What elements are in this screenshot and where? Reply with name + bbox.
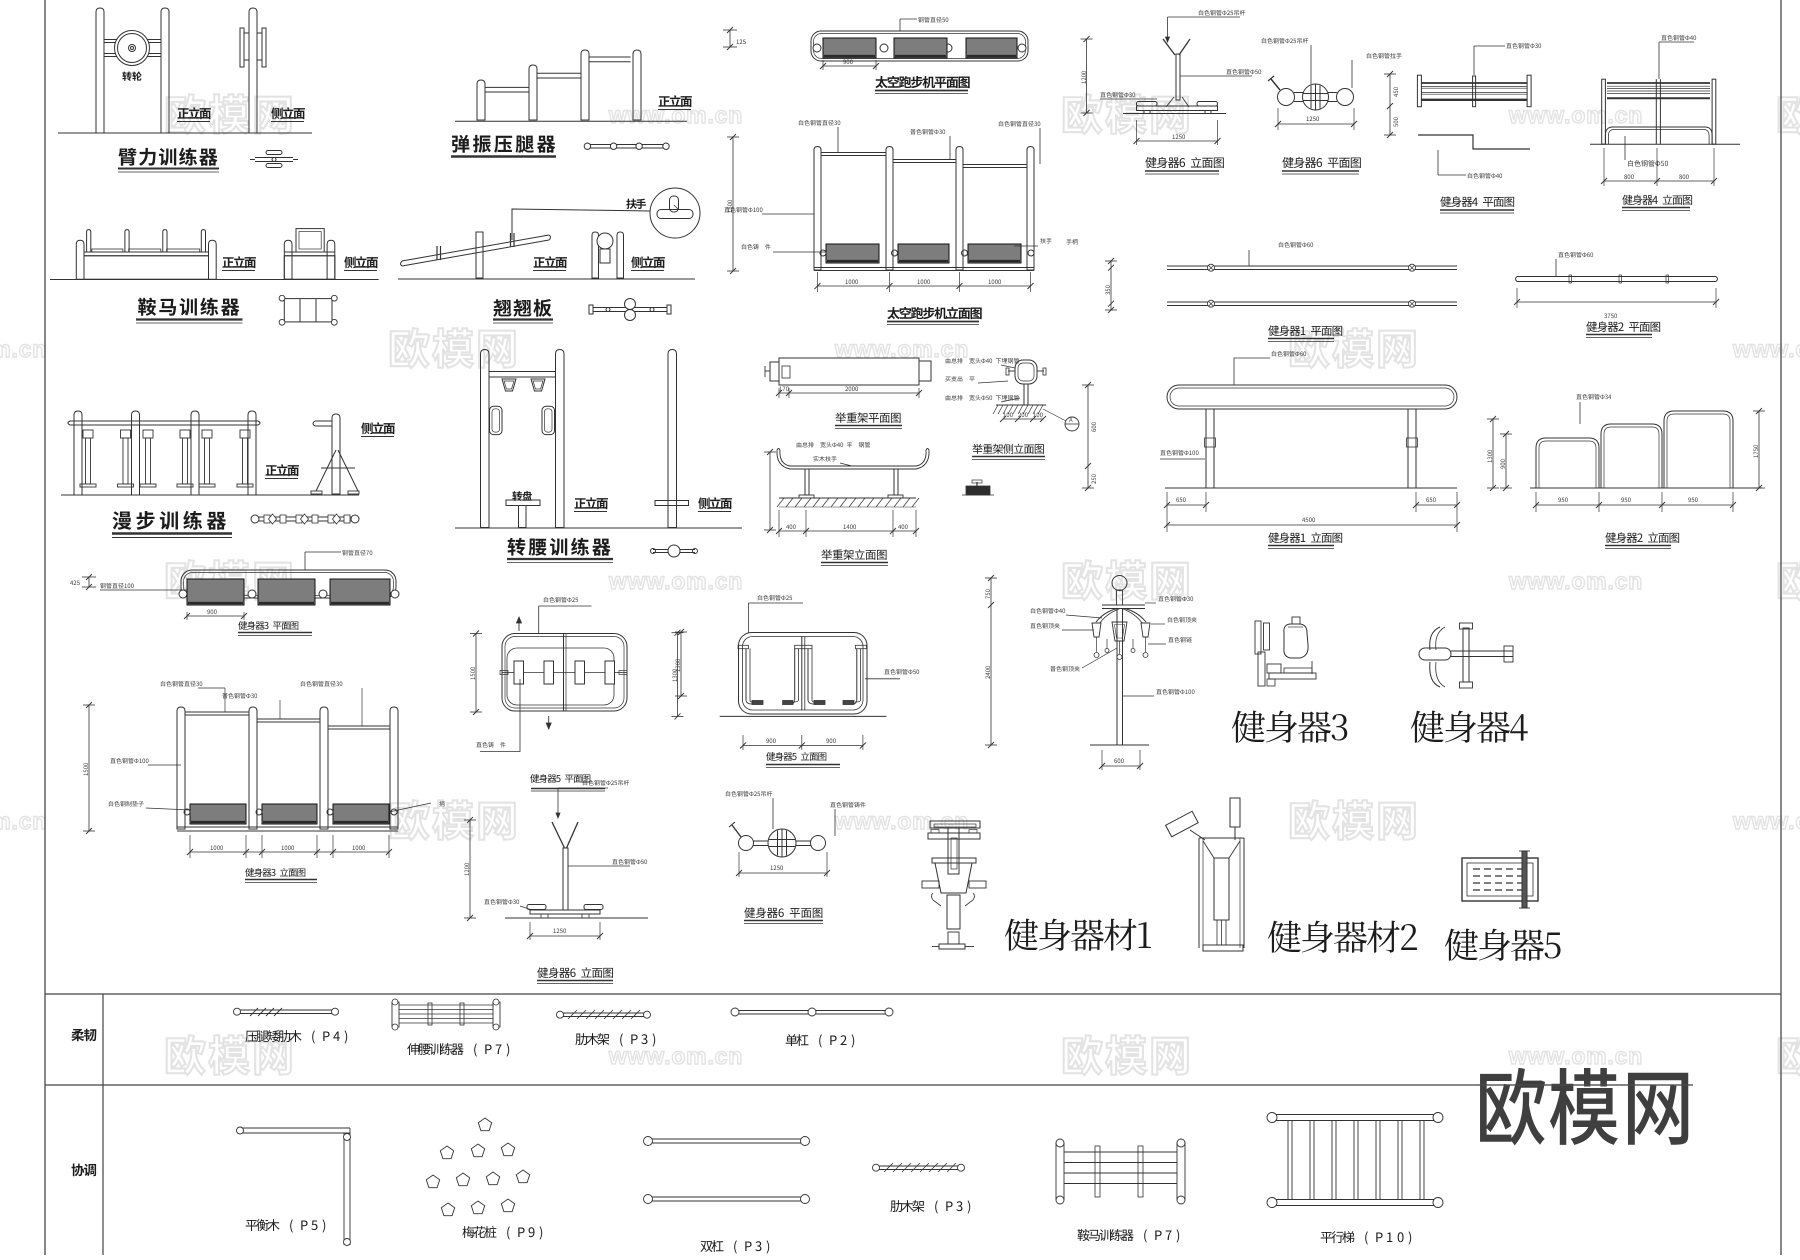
转盘 label <box>512 491 532 501</box>
健身器6平面图2 right circle <box>811 836 826 851</box>
健身器6立面图2 title <box>537 967 613 978</box>
健身器4立面图 bench <box>1602 79 1606 144</box>
臂力训练器 side view <box>249 8 257 133</box>
太空跑步机立面图 leader 1 <box>799 120 840 126</box>
太极揉推器 left dim pole <box>990 578 992 745</box>
健身器3立面图 pads <box>190 804 246 824</box>
健身器3平面图 tube frame <box>181 570 396 598</box>
健身器2平面图 title <box>1586 321 1660 332</box>
太空跑步机立面图 left dim pole <box>732 137 734 271</box>
太空跑步机立面图 right leader <box>1040 238 1051 244</box>
太极揉推器 leaders right <box>1158 596 1193 602</box>
正立面 label (臂力) <box>178 107 211 119</box>
太空跑步机平面图 bottom dim <box>822 60 824 70</box>
太空跑步机立面图 title <box>887 307 981 319</box>
健身器3平面图 title <box>238 621 298 630</box>
table label column line <box>102 994 104 1255</box>
翘翘板 handles <box>436 246 438 260</box>
鞍马训练器 ground <box>50 279 379 281</box>
鞍马训练器 icon <box>1056 1143 1064 1200</box>
健身器1平面图 leader <box>1279 242 1313 248</box>
柔韧 row label <box>71 1029 96 1042</box>
弹振压腿器 plan icon <box>587 144 666 146</box>
健身器5立面图 foot pads <box>752 701 763 705</box>
肋木架 icon 1 <box>560 1012 647 1014</box>
太极揉推器 post <box>1117 609 1123 746</box>
健身器6平面图 center wheel <box>1303 84 1329 110</box>
太空跑步机平面图 left dim <box>723 29 737 31</box>
翘翘板 ground <box>398 278 695 280</box>
健身器5立面图 center divider <box>801 637 803 711</box>
健身器6立面图 top leader <box>1167 17 1169 42</box>
健身器6平面图 bar <box>1294 92 1337 94</box>
健身器3立面图 right leader <box>439 801 445 807</box>
健身器3立面图 pad pins <box>184 809 190 815</box>
健身器5平面图 right dim <box>677 633 679 717</box>
健身器5立面图 top leader <box>748 603 750 633</box>
转腰训练器 crossbar <box>489 371 556 373</box>
鞍马训练器 top stubs <box>87 230 91 252</box>
举重架平面图 dims <box>778 388 780 398</box>
肋木架 icon 2 <box>876 1165 961 1167</box>
翘翘板 side view <box>592 232 599 278</box>
侧立面 label (鞍马) <box>344 256 378 268</box>
健身器4平面图 title <box>1440 196 1514 207</box>
扶手 leader <box>512 209 650 240</box>
健身器6平面图 dim <box>1277 108 1279 130</box>
健身器2立面图 title <box>1605 532 1679 543</box>
健身器6立面图 mid leader <box>1180 75 1252 77</box>
平行梯 label <box>1321 1231 1412 1244</box>
健身器6平面图 right circle <box>1337 89 1354 106</box>
健身器3 label <box>1232 711 1347 743</box>
太空跑步机立面图 leader 3 <box>999 121 1040 127</box>
健身器5立面图 right leader <box>865 678 900 680</box>
漫步训练器 ground <box>61 494 359 496</box>
健身器1立面图 title <box>1268 532 1342 543</box>
健身器2立面图 dims <box>1535 492 1537 512</box>
转腰训练器 title <box>508 538 611 556</box>
转腰训练器 side handles <box>490 406 503 434</box>
肋木架 label 1 <box>575 1033 655 1046</box>
臂力训练器 front post right <box>161 8 169 133</box>
太空跑步机平面图 leader <box>899 19 901 31</box>
太极揉推器 hangers <box>1092 623 1101 637</box>
健身器4立面图 seat tube <box>1605 127 1712 144</box>
健身器5立面图 bottom dims <box>742 735 744 750</box>
健身器4 label <box>1411 711 1528 743</box>
侧立面 label (翘翘板) <box>631 256 665 268</box>
健身器6平面图2 leaders <box>726 791 772 797</box>
肋木架 label 2 <box>890 1200 970 1213</box>
太极揉推器 leaders left <box>1031 608 1065 614</box>
正立面 label (漫步) <box>266 464 299 476</box>
健身器1平面图 bar 1 <box>1167 265 1457 267</box>
健身器6立面图 left dim pole <box>1086 39 1088 113</box>
伸腰训练器 icon <box>392 1002 399 1027</box>
健身器1平面图 title <box>1268 325 1342 336</box>
太空跑步机平面图 tube frame <box>811 31 1028 61</box>
举重架立面图 legs <box>805 469 809 495</box>
健身器5 label <box>1445 929 1561 961</box>
健身器6平面图 left circle <box>1278 89 1295 106</box>
漫步训练器 top rail <box>70 420 258 422</box>
鞍马训练器 seat pads <box>92 249 123 252</box>
健身器4平面图 leader <box>1473 46 1475 75</box>
健身器1立面图 dims <box>1166 492 1168 532</box>
举重架侧立面图 bottom dim <box>1003 418 1043 420</box>
压腿矮肋木 label <box>245 1030 347 1043</box>
svg-text:www.om.cn: www.om.cn <box>608 1043 743 1069</box>
健身器5立面图 inner tubes <box>745 649 747 701</box>
健身器2平面图 leader <box>1555 259 1557 276</box>
弹振压腿器 title <box>452 135 555 153</box>
健身器4立面图 inner leader <box>1624 136 1626 160</box>
svg-text:www.om.cn: www.om.cn <box>1732 336 1800 362</box>
健身器5立面图 tube caps <box>738 645 749 648</box>
健身器3平面图 pad dim <box>186 612 188 620</box>
健身器5平面图 arrows <box>518 617 520 631</box>
弹振压腿器 posts <box>477 80 485 120</box>
健身器2立面图 left dim poles <box>1492 419 1494 488</box>
举重架立面图 left dim pole <box>769 452 771 530</box>
健身器6立面图2 left dim <box>469 820 471 918</box>
太空跑步机立面图 left leader mid <box>724 207 762 213</box>
健身器5平面图 left dim <box>475 634 477 713</box>
双杠 icon <box>648 1138 805 1140</box>
举重架侧立面图 leaders <box>946 358 1019 364</box>
健身器4平面图 Z leader <box>1437 150 1439 175</box>
健身器6立面图 ground <box>1123 113 1226 115</box>
健身器6立面图 base <box>1137 106 1218 111</box>
健身器1立面图 top leader <box>1234 358 1270 385</box>
鞍马训练器 label <box>1078 1229 1180 1243</box>
弹振压腿器 ground <box>455 120 687 122</box>
扶手 label <box>626 199 646 209</box>
单杠 icon <box>735 1010 889 1012</box>
梅花桩 label <box>462 1226 542 1240</box>
健身器3平面图 left dim <box>82 576 96 578</box>
正立面 label (翘翘板) <box>534 256 567 268</box>
健身器4立面图 ground <box>1590 143 1740 145</box>
健身器4立面图 title <box>1622 195 1692 205</box>
page left border <box>44 0 46 1255</box>
侧立面 label (转腰) <box>698 497 732 509</box>
太极揉推器 cap plate <box>1102 604 1145 606</box>
举重架立面图 bench <box>790 465 916 467</box>
漫步训练器 posts <box>74 411 82 495</box>
太空跑步机平面图 joint circles <box>813 44 821 52</box>
太空跑步机立面图 posts <box>814 147 821 271</box>
鞍马训练器 bench <box>84 251 209 253</box>
平衡木 label <box>246 1219 326 1232</box>
健身器6立面图 title <box>1145 157 1223 168</box>
臂力训练器 ground line <box>58 132 312 134</box>
鞍马训练器 front posts <box>76 240 84 279</box>
健身器6平面图2 title <box>744 907 822 918</box>
健身器5平面图 pedals <box>514 661 524 684</box>
svg-text:www.om.cn: www.om.cn <box>1508 568 1643 594</box>
正立面 label (弹振) <box>659 95 692 107</box>
臂力训练器 plan icon <box>255 157 293 159</box>
太极揉推器 ball top <box>1112 576 1127 591</box>
健身器3立面图 left dim pole <box>88 705 90 831</box>
太极揉推器 arms <box>1096 609 1117 623</box>
健身器2立面图 ground <box>1530 487 1762 489</box>
健身器2立面图 step frame 3 <box>1664 411 1733 488</box>
举重架立面图 right dim pole <box>1087 385 1089 488</box>
太空跑步机平面图 title <box>875 76 969 88</box>
健身器3 icon <box>1255 621 1261 654</box>
鞍马训练器 side view <box>284 240 292 279</box>
svg-text:www.om.cn: www.om.cn <box>0 808 47 834</box>
臂力训练器 wheel <box>115 31 150 66</box>
健身器6平面图 leader 2 <box>1367 53 1402 59</box>
太空跑步机立面图 left leader low <box>742 244 771 250</box>
正立面 label (转腰) <box>575 497 608 509</box>
翘翘板 center post <box>476 232 483 278</box>
健身器1立面图 left leader <box>1160 450 1198 456</box>
健身器5平面图 title <box>530 774 590 783</box>
翘翘板 plan icon <box>593 307 667 309</box>
梅花桩 icon <box>478 1118 491 1131</box>
健身器5 icon <box>1462 858 1538 901</box>
翘翘板 beam <box>402 235 549 266</box>
健身器2立面图 leader <box>1576 394 1611 400</box>
太空跑步机立面图 pad pins <box>820 250 826 256</box>
太空跑步机立面图 base <box>814 267 1034 269</box>
举重架平面图 body <box>779 358 919 385</box>
伸腰训练器 label <box>407 1043 509 1057</box>
太空跑步机立面图 bottom dims <box>817 272 819 292</box>
健身器6立面图 fork and stem <box>1163 39 1175 55</box>
健身器材2 machine <box>1166 811 1199 837</box>
太空跑步机立面图 pads <box>826 244 879 263</box>
svg-text:www.om.cn: www.om.cn <box>1508 1043 1643 1069</box>
table top border <box>45 993 1781 995</box>
svg-text:www.om.cn: www.om.cn <box>1508 102 1643 128</box>
健身器5立面图 title <box>766 752 826 761</box>
watermark tile layer <box>0 94 1800 1075</box>
健身器3立面图 rails <box>185 711 249 713</box>
臂力训练器 front post left <box>96 8 104 133</box>
page right border <box>1780 0 1782 1255</box>
双杠 label <box>700 1240 769 1253</box>
侧立面 label (臂力) <box>271 107 305 119</box>
太极揉推器 pull cords <box>1096 637 1098 652</box>
健身器3平面图 joint circles <box>179 590 187 598</box>
转腰训练器 hanging triangles <box>502 379 516 391</box>
健身器6平面图 title <box>1282 157 1360 168</box>
压腿矮肋木 icon <box>237 1009 335 1011</box>
健身器2立面图 right dim pole <box>1758 411 1760 488</box>
转腰训练器 side view <box>668 350 677 528</box>
健身器4平面图 bench top view <box>1417 75 1421 107</box>
健身器2立面图 step frame 2 <box>1601 424 1662 488</box>
协调 row label <box>72 1164 97 1177</box>
健身器1立面图 posts <box>1206 409 1214 488</box>
健身器5平面图 lower leader <box>480 679 520 752</box>
太极揉推器 bottom dim <box>1101 750 1103 770</box>
健身器6立面图2 top leader <box>557 788 559 818</box>
健身器2立面图 step frame 1 <box>1536 438 1599 488</box>
健身器3立面图 top leaders <box>161 681 202 687</box>
健身器6平面图2 bar <box>753 840 811 842</box>
平衡木 icon <box>237 1127 350 1129</box>
健身器6立面图 left leader <box>1100 92 1135 98</box>
漫步训练器 title <box>113 511 227 530</box>
鞍马训练器 title <box>138 298 239 316</box>
转腰训练器 plan icon <box>653 549 695 551</box>
举重架侧立面图 ground hatch <box>996 404 1046 406</box>
健身器5平面图 frame <box>502 634 627 712</box>
健身器1平面图 left dim pole <box>1110 261 1112 310</box>
健身器材2 label <box>1268 921 1417 953</box>
健身器1立面图 top rail <box>1167 385 1457 409</box>
扶手 detail circle <box>650 188 700 238</box>
健身器1平面图 手柄 label <box>1066 239 1077 245</box>
健身器6立面图2 mid leader <box>568 865 630 867</box>
太空跑步机立面图 top rails <box>821 152 886 154</box>
转腰训练器 posts <box>481 350 490 528</box>
臂力训练器 crossbars <box>104 39 161 41</box>
欧模网 logo bottom right <box>1480 1068 1688 1146</box>
健身器2平面图 dim <box>1516 288 1518 308</box>
举重架立面图 section icon <box>966 486 990 495</box>
健身器6立面图2 left leader <box>484 899 519 905</box>
臂力训练器 title <box>118 148 217 166</box>
table row divider over logo <box>1475 1084 1693 1086</box>
健身器1立面图 ground <box>1165 487 1457 489</box>
健身器3立面图 bottom dims <box>189 835 191 858</box>
健身器材1 label <box>1005 919 1151 951</box>
太空跑步机立面图 leader 2 <box>910 129 945 135</box>
健身器3立面图 title <box>245 868 305 877</box>
健身器6立面图2 base <box>530 910 600 914</box>
漫步训练器 side view <box>332 414 340 494</box>
转腰训练器 pedestal <box>506 500 540 506</box>
健身器5立面图 outer tube <box>739 633 868 715</box>
svg-text:www.om.cn: www.om.cn <box>0 336 47 362</box>
侧立面 label (漫步) <box>361 422 395 434</box>
鞍马训练器 plan icon <box>284 299 332 322</box>
健身器4 icon <box>1419 648 1451 660</box>
举重架立面图 title <box>821 549 886 560</box>
举重架侧立面图 stand <box>1015 360 1037 384</box>
弹振压腿器 bars <box>486 86 529 88</box>
健身器5立面图 left dim pole <box>680 632 682 696</box>
健身器6立面图2 bottom dim <box>529 922 531 940</box>
健身器6平面图2 center wheel <box>768 829 796 857</box>
举重架平面图 title <box>835 412 900 423</box>
转腰训练器 ground <box>455 527 742 529</box>
健身器6平面图 right dim pole <box>1389 74 1391 135</box>
举重架立面图 ground hatch <box>779 497 916 499</box>
漫步训练器 plan icon <box>255 516 355 518</box>
svg-text:www.om.cn: www.om.cn <box>608 568 743 594</box>
健身器6平面图2 left circle <box>739 836 754 851</box>
健身器1平面图 bar 2 <box>1167 301 1457 303</box>
健身器4立面图 top leader <box>1658 42 1660 79</box>
svg-text:www.om.cn: www.om.cn <box>1732 808 1800 834</box>
健身器5平面图 top leader <box>544 597 578 603</box>
健身器6立面图2 ground <box>505 917 648 919</box>
健身器6立面图2 fork stem <box>552 822 565 848</box>
健身器6平面图2 dim <box>738 852 740 877</box>
举重架立面图 leaders <box>797 442 870 448</box>
健身器4立面图 dims <box>1603 148 1605 186</box>
健身器3平面图 leader <box>304 552 306 570</box>
漫步训练器 pendulums <box>83 430 93 438</box>
健身器6立面图 bottom dim <box>1136 120 1138 145</box>
臂力训练器 转轮 label <box>122 71 141 80</box>
健身器5立面图 ground <box>720 715 887 717</box>
翘翘板 title <box>493 299 551 317</box>
table row divider <box>45 1084 1693 1086</box>
举重架立面图 bottom dims <box>778 510 780 537</box>
单杠 label <box>786 1034 854 1047</box>
健身器3立面图 base <box>177 826 398 828</box>
健身器3立面图 left leaders <box>110 758 148 764</box>
健身器2平面图 bar <box>1517 276 1716 278</box>
健身器3立面图 posts <box>177 707 185 829</box>
太空跑步机平面图 pedal pads <box>823 38 876 58</box>
健身器材1 machine <box>930 821 980 828</box>
健身器6平面图 leader 1 <box>1262 38 1308 44</box>
健身器3平面图 pads <box>187 579 244 605</box>
平行梯 icon <box>1272 1114 1438 1116</box>
健身器4平面图 Z profile <box>1418 135 1530 149</box>
举重架侧立面图 title <box>972 444 1044 454</box>
举重架侧立面图 section marker <box>1065 417 1079 431</box>
正立面 label (鞍马) <box>223 256 256 268</box>
